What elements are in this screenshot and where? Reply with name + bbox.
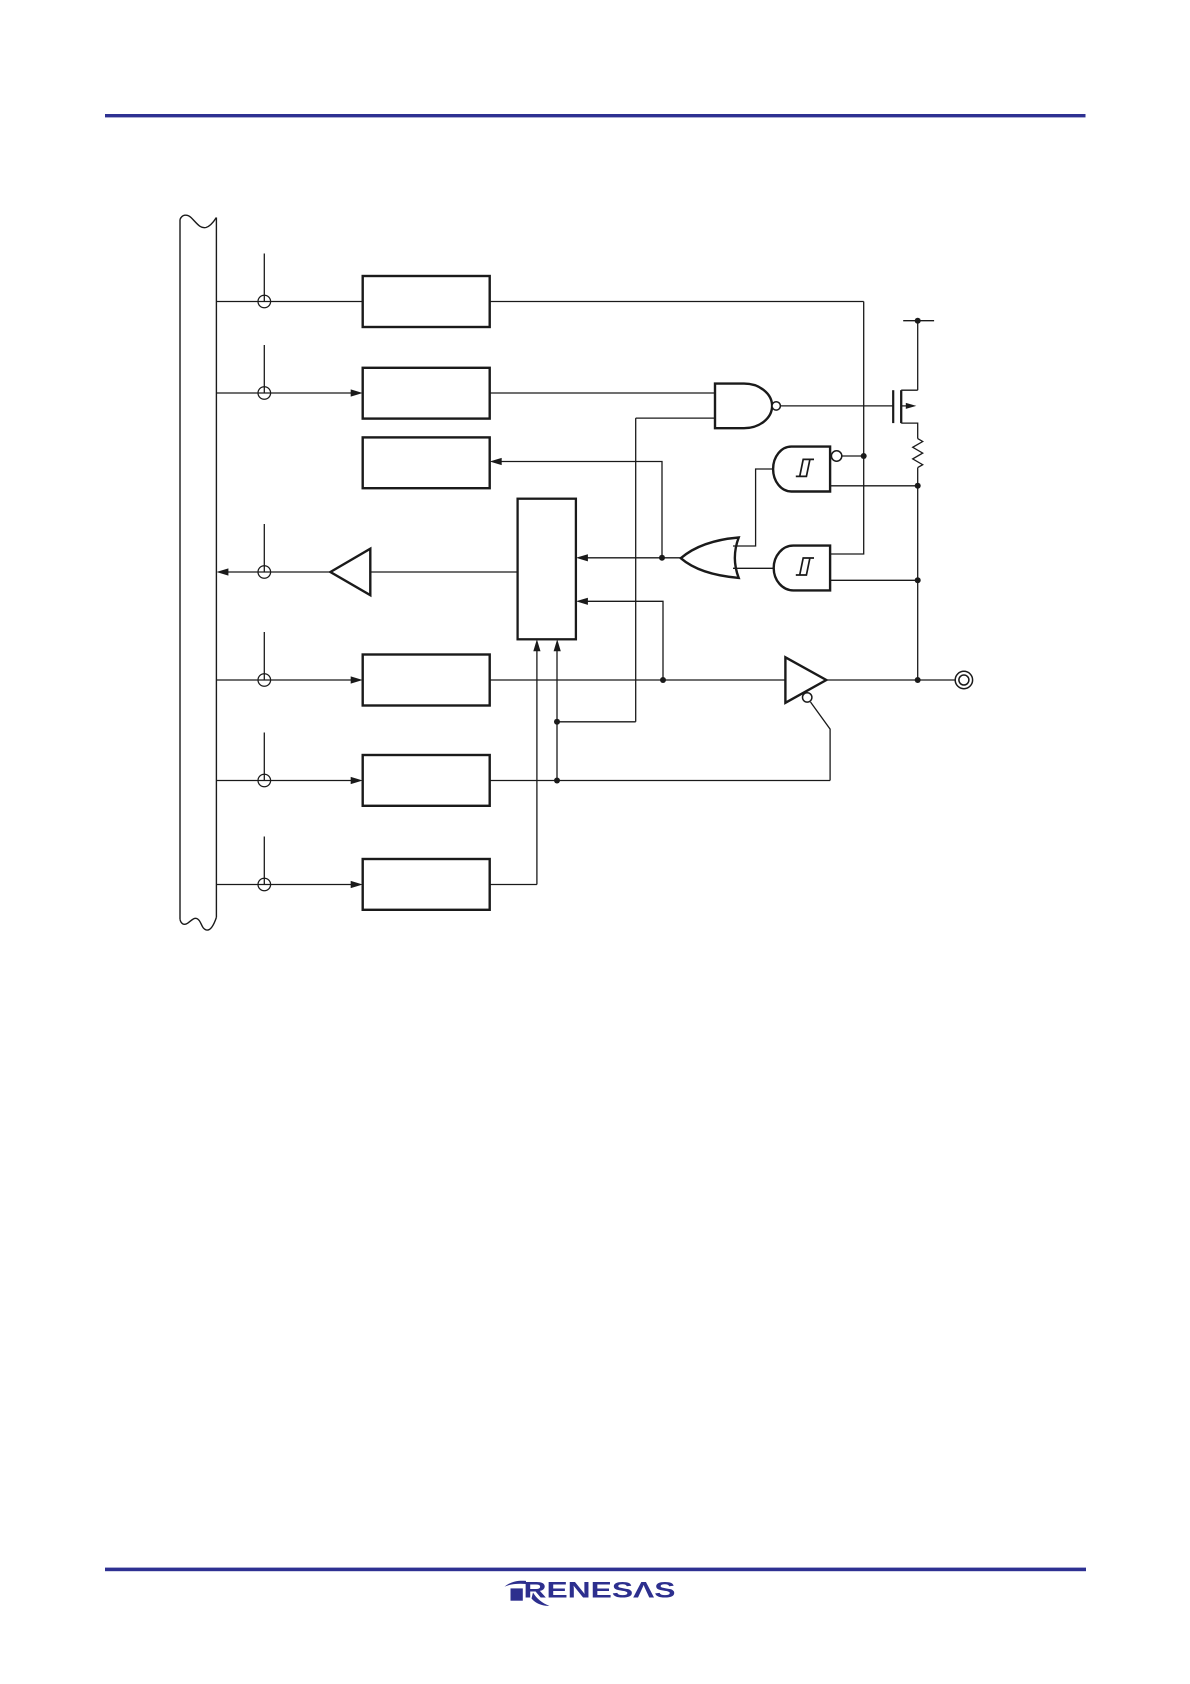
svg-text:RENESΛS: RENESΛS	[524, 1578, 676, 1603]
